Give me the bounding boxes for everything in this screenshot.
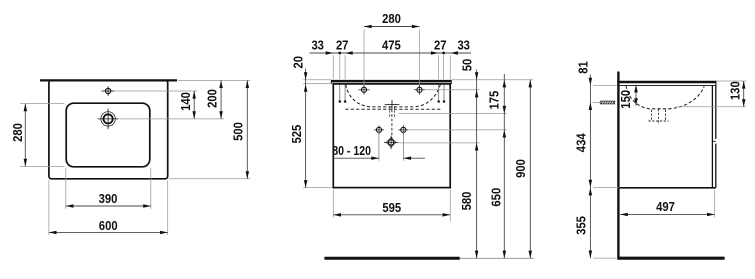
svg-text:900: 900	[514, 159, 528, 178]
svg-text:434: 434	[574, 133, 588, 152]
svg-text:600: 600	[99, 219, 118, 233]
svg-text:580: 580	[460, 192, 474, 211]
svg-text:150: 150	[619, 90, 633, 109]
svg-text:33: 33	[311, 39, 324, 53]
svg-text:500: 500	[232, 122, 246, 141]
svg-text:595: 595	[382, 201, 401, 215]
svg-text:80 - 120: 80 - 120	[332, 144, 371, 158]
svg-text:20: 20	[292, 56, 306, 69]
svg-text:525: 525	[290, 125, 304, 144]
svg-text:81: 81	[576, 61, 590, 74]
svg-text:200: 200	[206, 89, 220, 108]
svg-text:130: 130	[729, 81, 743, 100]
svg-text:140: 140	[179, 92, 193, 111]
svg-text:650: 650	[489, 188, 503, 207]
svg-text:280: 280	[11, 123, 25, 142]
svg-text:355: 355	[574, 216, 588, 235]
svg-text:175: 175	[488, 91, 502, 110]
svg-text:50: 50	[461, 59, 475, 72]
svg-text:390: 390	[99, 192, 118, 206]
svg-text:33: 33	[457, 39, 470, 53]
svg-text:280: 280	[382, 12, 401, 26]
svg-text:475: 475	[382, 39, 401, 53]
svg-text:27: 27	[336, 39, 349, 53]
svg-text:27: 27	[434, 39, 447, 53]
svg-text:497: 497	[656, 200, 675, 214]
